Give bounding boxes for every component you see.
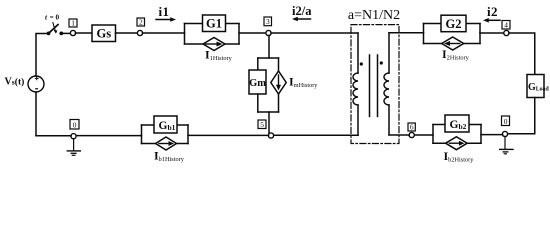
node 5: [268, 133, 273, 138]
wire stem from node3: [268, 35, 270, 58]
resistor Gs: [92, 25, 116, 42]
source Vs(t): [28, 76, 44, 92]
wire G1 block to node3: [239, 32, 266, 34]
svg-text:i2: i2: [487, 4, 498, 19]
wire transformer bottom to node5: [274, 134, 359, 136]
conductance Gb2 with Ib2History block: [433, 115, 481, 150]
node label 2: [137, 18, 145, 26]
node 4: [504, 30, 509, 35]
resistor GLoad: [527, 75, 544, 98]
svg-text:6: 6: [410, 123, 414, 132]
svg-text:Vs(t): Vs(t): [5, 76, 25, 87]
wire node3 to transformer: [271, 32, 358, 34]
node label 5: [258, 120, 266, 129]
shunt Gm / ImHistory branch: [249, 35, 286, 133]
svg-text:0: 0: [73, 120, 77, 129]
svg-text:3: 3: [266, 17, 270, 26]
text + of source: [35, 77, 39, 81]
conductance G1 with I1History block: [185, 15, 240, 51]
svg-text:4: 4: [504, 21, 508, 30]
winding primary: [353, 33, 358, 135]
node label 4: [502, 21, 510, 30]
wire Gs to node2: [116, 32, 138, 34]
wire node4 to right corner: [509, 33, 535, 75]
wire node6 to transformer: [389, 134, 409, 136]
wire node5 to Gb1 block: [188, 134, 269, 136]
current arrow i2/a: [296, 18, 311, 20]
wire node2 to G1 block: [142, 32, 184, 34]
polarity dot secondary: [380, 61, 383, 64]
polarity dot primary: [360, 62, 363, 65]
current source ImHistory diamond: [271, 71, 286, 94]
current source Ib2History diamond: [446, 137, 468, 150]
winding secondary: [384, 33, 389, 135]
core: [369, 55, 371, 117]
node label 3: [264, 17, 272, 26]
svg-text:G1: G1: [206, 17, 222, 31]
transformer ideal box: [351, 25, 399, 144]
ground left: [67, 139, 80, 156]
svg-text:1: 1: [71, 19, 75, 28]
svg-text:a=N1/N2: a=N1/N2: [348, 8, 400, 23]
node label 1: [69, 19, 77, 27]
wire stem to node5: [268, 112, 270, 133]
svg-text:t = 0: t = 0: [45, 14, 59, 22]
svg-text:G2: G2: [446, 17, 462, 31]
svg-text:0: 0: [504, 117, 508, 126]
wire transformer to G2 block: [389, 32, 424, 34]
wire GLoad to bottom corner: [508, 98, 535, 134]
wire Gb2 to node6: [414, 134, 433, 136]
wire Vs top lead: [36, 34, 46, 77]
conductance Gb1 with Ib1History block: [142, 116, 189, 150]
current source I2History diamond: [442, 37, 464, 50]
switch t=0: [47, 23, 71, 36]
wire G2 to node4: [480, 32, 504, 34]
current arrow i2: [487, 19, 501, 21]
node 3: [266, 30, 271, 35]
svg-text:5: 5: [260, 120, 264, 129]
current arrow i1: [156, 19, 173, 21]
node 6: [409, 132, 414, 137]
wire Gb1 to node0L: [76, 135, 142, 137]
node 2: [137, 30, 142, 35]
node 0 left: [71, 134, 76, 139]
node label 0 right: [502, 116, 510, 126]
current source I1History diamond: [203, 38, 225, 51]
svg-text:2: 2: [139, 18, 143, 27]
svg-text:i2/a: i2/a: [292, 4, 312, 18]
svg-text:Gm: Gm: [249, 78, 266, 89]
conductance Gm: [249, 70, 266, 94]
node number boxes: [69, 17, 510, 131]
node label 0 left: [70, 120, 79, 130]
node 0 right: [502, 131, 507, 136]
text - of source: [35, 88, 38, 90]
node label 6: [408, 123, 415, 131]
wire Vs bottom lead: [35, 92, 37, 135]
wire node0L to Vs corner: [36, 135, 71, 137]
node 1: [70, 30, 75, 35]
current source Ib1History diamond: [156, 137, 177, 150]
wire node0R to Gb2 block: [481, 134, 503, 136]
conductance G2 with I2History block: [424, 15, 481, 50]
wire node1 to Gs: [75, 32, 92, 34]
svg-text:Gs: Gs: [97, 27, 112, 41]
svg-text:i1: i1: [159, 4, 170, 19]
ground right: [500, 136, 513, 153]
